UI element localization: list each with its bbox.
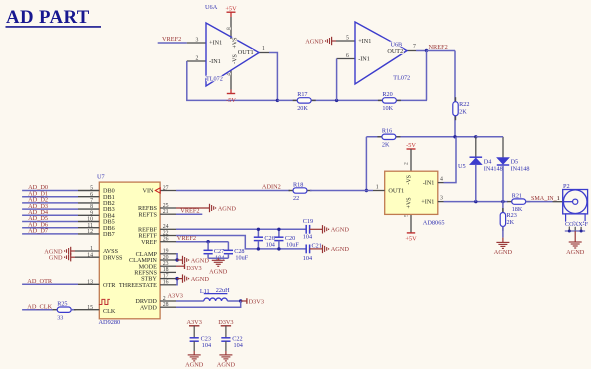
svg-text:2K: 2K <box>382 141 390 148</box>
svg-text:COAX-F: COAX-F <box>565 221 589 228</box>
svg-text:16: 16 <box>163 280 169 286</box>
svg-text:AGND: AGND <box>305 38 324 45</box>
svg-text:14: 14 <box>87 252 93 258</box>
svg-text:OUT2: OUT2 <box>387 48 403 55</box>
svg-text:7: 7 <box>90 198 93 204</box>
svg-text:AGND: AGND <box>331 246 350 253</box>
svg-text:1: 1 <box>90 246 93 252</box>
svg-text:4: 4 <box>440 176 443 182</box>
svg-text:-IN1: -IN1 <box>209 58 221 65</box>
svg-text:AGND: AGND <box>218 205 237 212</box>
svg-text:104: 104 <box>303 255 312 262</box>
svg-text:AGND: AGND <box>185 362 204 369</box>
svg-text:OUT1: OUT1 <box>388 188 404 195</box>
svg-text:17: 17 <box>163 273 169 279</box>
svg-text:2K: 2K <box>459 108 467 115</box>
svg-text:10: 10 <box>87 217 93 223</box>
svg-text:8: 8 <box>90 204 93 210</box>
svg-text:D3V3: D3V3 <box>218 319 233 326</box>
svg-text:D3V3: D3V3 <box>249 298 264 305</box>
svg-text:28: 28 <box>163 302 169 308</box>
svg-text:AD9280: AD9280 <box>99 319 121 326</box>
svg-text:18K: 18K <box>512 206 523 213</box>
svg-text:23: 23 <box>163 261 169 267</box>
svg-text:ADIN2: ADIN2 <box>262 184 281 191</box>
svg-text:AGND: AGND <box>331 227 350 234</box>
svg-text:-5V: -5V <box>406 142 416 149</box>
svg-text:18: 18 <box>163 267 169 273</box>
svg-text:TL072: TL072 <box>393 75 410 82</box>
svg-text:20K: 20K <box>297 105 308 112</box>
svg-text:10uF: 10uF <box>286 242 299 249</box>
svg-text:VIN: VIN <box>143 188 155 195</box>
svg-text:25: 25 <box>163 203 169 209</box>
svg-text:9: 9 <box>90 210 93 216</box>
svg-text:27: 27 <box>163 185 169 191</box>
svg-text:6: 6 <box>90 192 93 198</box>
svg-text:OTR: OTR <box>103 282 116 289</box>
svg-text:10uF: 10uF <box>235 255 248 262</box>
svg-text:-VS: -VS <box>407 175 413 185</box>
svg-text:AD8065: AD8065 <box>423 220 445 227</box>
svg-text:15: 15 <box>87 305 93 311</box>
svg-text:11: 11 <box>87 223 93 229</box>
svg-text:L11: L11 <box>200 288 210 295</box>
svg-text:R16: R16 <box>382 128 392 135</box>
svg-text:13: 13 <box>87 279 93 285</box>
svg-text:AGND: AGND <box>209 269 228 276</box>
svg-text:104: 104 <box>303 234 312 241</box>
svg-text:AD_D7: AD_D7 <box>28 228 48 235</box>
svg-text:+5V: +5V <box>405 236 417 243</box>
svg-text:6: 6 <box>346 53 349 59</box>
svg-text:22uH: 22uH <box>216 287 230 294</box>
svg-text:21: 21 <box>163 209 169 215</box>
svg-text:R17: R17 <box>297 91 307 98</box>
svg-text:26: 26 <box>163 237 169 243</box>
svg-text:A3V3: A3V3 <box>186 319 201 326</box>
svg-text:U7: U7 <box>97 174 105 181</box>
svg-text:GND: GND <box>49 255 63 262</box>
svg-text:OUT1: OUT1 <box>238 49 254 56</box>
svg-text:2: 2 <box>404 162 410 165</box>
svg-text:20: 20 <box>163 255 169 261</box>
svg-text:104: 104 <box>234 342 243 349</box>
svg-text:R20: R20 <box>382 91 392 98</box>
svg-text:3: 3 <box>196 38 199 44</box>
svg-text:24: 24 <box>163 224 169 230</box>
svg-text:VREF2: VREF2 <box>180 208 199 215</box>
svg-text:2: 2 <box>163 296 166 302</box>
svg-text:AGND: AGND <box>191 276 210 283</box>
svg-text:19: 19 <box>163 249 169 255</box>
svg-text:22: 22 <box>163 230 169 236</box>
svg-text:8: 8 <box>226 27 232 30</box>
svg-text:U5: U5 <box>458 163 466 170</box>
svg-text:THREESTATE: THREESTATE <box>119 282 157 289</box>
svg-text:1: 1 <box>376 184 379 190</box>
svg-text:IN4148: IN4148 <box>511 166 530 173</box>
svg-text:33: 33 <box>57 314 63 321</box>
svg-text:A3V3: A3V3 <box>168 292 183 299</box>
svg-text:+5V: +5V <box>225 5 237 12</box>
svg-text:-5V: -5V <box>226 97 236 104</box>
svg-text:+IN1: +IN1 <box>358 38 371 45</box>
svg-text:D3V3: D3V3 <box>186 265 201 272</box>
svg-text:TL072: TL072 <box>206 76 223 83</box>
svg-text:5: 5 <box>346 36 349 42</box>
svg-text:104: 104 <box>266 242 275 249</box>
svg-text:R22: R22 <box>459 101 469 108</box>
svg-text:VREF2: VREF2 <box>177 235 196 242</box>
svg-text:2: 2 <box>196 56 199 62</box>
svg-text:3: 3 <box>440 195 443 201</box>
svg-text:R25: R25 <box>57 301 67 308</box>
svg-text:AD_CLK: AD_CLK <box>27 303 52 310</box>
svg-text:C19: C19 <box>303 218 313 225</box>
svg-text:DB7: DB7 <box>103 231 115 238</box>
svg-text:+VS: +VS <box>407 197 413 208</box>
svg-text:2K: 2K <box>507 219 515 226</box>
svg-text:10K: 10K <box>382 105 393 112</box>
svg-text:-VS: -VS <box>232 54 238 64</box>
svg-text:AGND: AGND <box>191 257 210 264</box>
svg-text:+VS: +VS <box>232 37 238 48</box>
svg-text:-IN1: -IN1 <box>358 56 370 63</box>
svg-text:AVDD: AVDD <box>140 304 158 311</box>
svg-text:+IN1: +IN1 <box>421 199 434 206</box>
svg-text:R18: R18 <box>293 181 303 188</box>
svg-text:AGND: AGND <box>494 249 513 256</box>
svg-text:22: 22 <box>293 195 299 202</box>
svg-text:REFTS: REFTS <box>138 211 157 218</box>
svg-text:AD_OTR: AD_OTR <box>27 278 53 285</box>
svg-text:CLK: CLK <box>103 308 116 315</box>
svg-text:7: 7 <box>413 44 416 50</box>
svg-text:DRVSS: DRVSS <box>103 254 123 261</box>
svg-text:12: 12 <box>87 229 93 235</box>
svg-text:AD PART: AD PART <box>6 7 90 28</box>
svg-text:+IN1: +IN1 <box>209 40 222 47</box>
svg-text:5: 5 <box>90 186 93 192</box>
svg-text:1: 1 <box>262 46 265 52</box>
svg-text:104: 104 <box>202 342 211 349</box>
svg-text:-IN1: -IN1 <box>423 180 435 187</box>
svg-text:R21: R21 <box>512 192 522 199</box>
svg-text:AGND: AGND <box>566 249 585 256</box>
svg-text:IN4148: IN4148 <box>484 166 503 173</box>
svg-text:U6A: U6A <box>205 4 218 11</box>
svg-text:VREF: VREF <box>141 239 157 246</box>
svg-text:AGND: AGND <box>217 362 236 369</box>
svg-text:VREF2: VREF2 <box>162 36 181 43</box>
